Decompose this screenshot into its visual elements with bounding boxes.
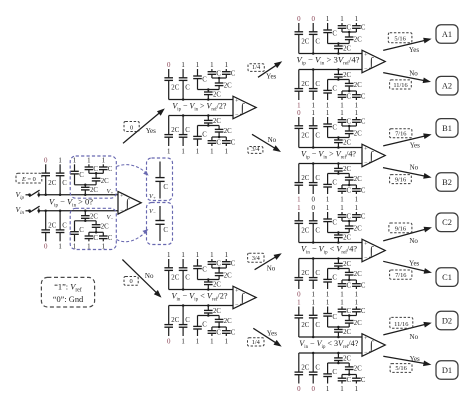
svg-text:1: 1: [196, 252, 200, 259]
capacitor 2C series to rail bot, stage-2 lower comparator block U3: [204, 304, 221, 315]
svg-text:2C: 2C: [343, 46, 351, 53]
capacitor 2C under pair top, stage-3 comparator block D (U7): [345, 316, 362, 328]
svg-text:C: C: [202, 322, 207, 329]
capacitor C bot main, stage-2 lower comparator block U3: [179, 304, 191, 336]
svg-text:Vip − Vin > Vref/2?: Vip − Vin > Vref/2?: [172, 102, 226, 113]
capacitor C pair-left top, stage-2 lower comparator block U3: [208, 259, 222, 268]
svg-text:C: C: [216, 71, 221, 78]
svg-text:∫: ∫: [369, 149, 374, 163]
svg-text:C: C: [231, 261, 236, 268]
svg-text:0: 0: [297, 16, 301, 23]
svg-text:1: 1: [340, 102, 344, 109]
dashed box around stage-1 upper inner capacitor network: [70, 156, 116, 198]
wire elbow bar top, stage-3 comparator block D (U7): [328, 326, 350, 329]
node labels stage-3 comparator block B (U5) bottom: [297, 196, 359, 203]
svg-text:1: 1: [326, 386, 330, 393]
capacitor C pair-right top, stage-3 comparator block C (U6): [352, 212, 366, 221]
capacitor C pair-right top, stage-2 upper comparator block U2: [222, 69, 236, 78]
wire elbow bar top, stage-2 upper comparator block U2: [198, 88, 220, 91]
capacitor C pair-left top, stage-3 comparator block A (U4): [338, 23, 352, 32]
capacitor 2C bot main, stage-3 comparator block A (U4): [295, 70, 310, 101]
svg-text:1: 1: [167, 252, 171, 259]
svg-text:1: 1: [210, 252, 214, 259]
svg-text:C: C: [361, 25, 366, 32]
wire top rail (+ input) of stage-3 comparator block B (U5): [299, 147, 362, 149]
svg-text:C: C: [163, 184, 168, 191]
svg-text:1: 1: [58, 157, 62, 164]
capacitor C top main, stage-3 comparator block C (U6): [309, 212, 321, 244]
svg-text:C: C: [202, 77, 207, 84]
wire pair junction bar top, stage-1 comparator block U1: [89, 172, 103, 175]
capacitor 2C series to rail bot, stage-3 comparator block C (U6): [334, 257, 351, 268]
svg-text:2C: 2C: [224, 83, 232, 90]
svg-text:C: C: [202, 132, 207, 139]
svg-text:No: No: [409, 237, 418, 245]
svg-text:0: 0: [167, 338, 171, 345]
capacitor C bot main, stage-1 comparator block U1: [56, 210, 68, 242]
svg-text:2C: 2C: [301, 228, 309, 235]
svg-text:2C: 2C: [224, 128, 232, 135]
dashed box energy 1/4 (stage-2 lower Yes): [248, 338, 265, 346]
wire top rail (+ input) of stage-3 comparator block C (U6): [299, 242, 362, 244]
capacitor C bot main, stage-3 comparator block C (U6): [309, 257, 321, 289]
wire bottom rail (&#8722; input) of stage-3 comparator block D (U7): [299, 352, 362, 354]
svg-text:1: 1: [355, 110, 359, 117]
svg-text:1: 1: [326, 16, 330, 23]
wire elbow bar bot, stage-3 comparator block B (U5): [328, 172, 350, 175]
svg-text:1: 1: [326, 102, 330, 109]
capacitor 2C series to rail bot, stage-3 comparator block D (U7): [334, 352, 351, 363]
svg-text:1: 1: [225, 148, 229, 155]
svg-text:1: 1: [73, 157, 77, 164]
svg-text:1: 1: [297, 196, 301, 203]
svg-text:C: C: [315, 228, 320, 235]
wire elbow bar bot, stage-2 lower comparator block U3: [198, 314, 220, 317]
svg-text:2C: 2C: [301, 270, 309, 277]
arrow D No to D2: [383, 323, 430, 335]
svg-text:3/4: 3/4: [251, 146, 260, 153]
svg-text:C: C: [315, 270, 320, 277]
arrow stage-2 upper Yes branch: [258, 62, 281, 77]
svg-text:1: 1: [340, 291, 344, 298]
capacitor C bot inner branch, stage-1 comparator block U1: [70, 221, 84, 242]
wire elbow bar top, stage-3 comparator block C (U6): [328, 231, 350, 234]
svg-text:C: C: [361, 283, 366, 290]
svg-text:2C: 2C: [343, 166, 351, 173]
svg-text:1: 1: [102, 157, 106, 164]
svg-text:C: C: [185, 127, 190, 134]
svg-text:2C: 2C: [213, 92, 221, 99]
svg-text:1: 1: [340, 16, 344, 23]
capacitor C equivalent (V+): [155, 162, 168, 199]
capacitor C pair-right bot, stage-3 comparator block D (U7): [352, 375, 366, 385]
svg-text:2C: 2C: [90, 213, 98, 220]
wire pair junction bar bot, stage-2 lower comparator block U3: [212, 326, 226, 329]
node labels stage-3 comparator block C (U6) bottom: [297, 291, 359, 298]
node labels stage-3 comparator block C (U6) top: [297, 205, 359, 212]
svg-text:∫: ∫: [240, 101, 245, 115]
capacitor C pair-right top, stage-3 comparator block D (U7): [352, 307, 366, 316]
capacitor 2C bot main, stage-2 upper comparator block U2: [164, 116, 179, 147]
svg-text:5/16: 5/16: [394, 36, 405, 43]
svg-text:1: 1: [340, 196, 344, 203]
svg-text:C: C: [315, 39, 320, 46]
svg-text:Yes: Yes: [146, 127, 156, 135]
arrow C No to C2: [383, 227, 430, 241]
capacitor 2C series to rail top, stage-2 upper comparator block U2: [204, 90, 221, 101]
svg-text:C: C: [163, 227, 168, 234]
svg-text:2C: 2C: [171, 127, 179, 134]
svg-text:1: 1: [340, 386, 344, 393]
dashed box energy 7/16 (C Yes): [390, 270, 412, 279]
svg-text:E = 0: E = 0: [21, 176, 36, 183]
wire pair junction bar top, stage-3 comparator block A (U4): [342, 31, 356, 34]
output code box A1: [436, 25, 458, 44]
svg-text:C: C: [332, 314, 337, 321]
comparator stage-3 comparator block B (U5): [362, 144, 385, 167]
wire elbow bar top, stage-2 lower comparator block U3: [198, 278, 220, 281]
svg-text:C: C: [332, 125, 337, 132]
svg-text:C: C: [79, 227, 84, 234]
dashed arrow big box to V+ equivalent: [117, 165, 147, 174]
capacitor 2C under pair bot, stage-3 comparator block A (U4): [345, 80, 362, 92]
svg-text:C: C: [361, 119, 366, 126]
dashed box energy 7/16 (B Yes): [390, 129, 412, 138]
arrow D Yes to D1: [383, 356, 429, 365]
svg-text:1: 1: [297, 102, 301, 109]
svg-text:2C: 2C: [301, 39, 309, 46]
svg-text:2C: 2C: [354, 366, 362, 373]
arrow B Yes to B1: [383, 134, 430, 146]
wire top rail (+ input) of stage-3 comparator block D (U7): [299, 336, 362, 338]
capacitor 2C under pair top, stage-2 lower comparator block U3: [215, 268, 232, 280]
capacitor 2C under pair top, stage-2 upper comparator block U2: [215, 78, 232, 90]
capacitor 2C bot main, stage-2 lower comparator block U3: [164, 306, 179, 337]
dashed box around stage-1 lower inner capacitor network: [70, 208, 116, 249]
switch S1p (sampling switch on Vip): [29, 190, 47, 197]
capacitor C pair-right bot, stage-3 comparator block C (U6): [352, 280, 366, 290]
svg-text:C: C: [315, 365, 320, 372]
svg-text:1: 1: [326, 196, 330, 203]
svg-text:2C: 2C: [101, 223, 109, 230]
capacitor 2C under pair bot, stage-3 comparator block D (U7): [345, 363, 362, 375]
wire pair junction bar bot, stage-1 comparator block U1: [89, 231, 103, 234]
wire elbow bar top, stage-3 comparator block A (U4): [328, 42, 350, 45]
capacitor 2C under pair bot, stage-2 upper comparator block U2: [215, 126, 232, 138]
svg-text:2C: 2C: [343, 329, 351, 336]
svg-text:2C: 2C: [213, 282, 221, 289]
svg-text:Vin − Vip < Vref/4?: Vin − Vip < Vref/4?: [301, 245, 357, 256]
arrow stage-1 No branch: [122, 260, 160, 297]
dashed box equivalent capacitor C on V-: [147, 203, 173, 245]
svg-text:C: C: [361, 188, 366, 195]
svg-text:1: 1: [340, 205, 344, 212]
svg-text:C: C: [361, 377, 366, 384]
wire bottom rail (&#8722; input) of stage-3 comparator block A (U4): [299, 69, 362, 71]
node labels stage-3 comparator block D (U7) top: [297, 300, 359, 307]
capacitor C pair-right top, stage-1 comparator block U1: [99, 164, 113, 173]
capacitor 2C top main, stage-3 comparator block B (U5): [295, 117, 310, 148]
svg-text:∫: ∫: [240, 291, 245, 305]
capacitor C top inner branch, stage-1 comparator block U1: [70, 164, 84, 185]
svg-text:2C: 2C: [354, 176, 362, 183]
svg-text:1: 1: [181, 252, 185, 259]
comparator stage-2 lower comparator block U3: [233, 286, 256, 309]
svg-text:1: 1: [58, 244, 62, 251]
svg-text:1: 1: [355, 205, 359, 212]
capacitor 2C series to rail bot, stage-3 comparator block B (U5): [334, 162, 351, 173]
output code box D1: [436, 361, 458, 380]
svg-text:11/16: 11/16: [394, 321, 408, 328]
svg-text:1: 1: [326, 205, 330, 212]
svg-text:0: 0: [130, 124, 133, 131]
wire elbow bar bot, stage-3 comparator block D (U7): [328, 362, 350, 365]
svg-text:2C: 2C: [354, 271, 362, 278]
svg-text:C: C: [93, 166, 98, 173]
wire elbow bar bot, stage-1 comparator block U1: [75, 220, 97, 223]
svg-text:2C: 2C: [343, 235, 351, 242]
wire pair junction bar top, stage-2 lower comparator block U3: [212, 267, 226, 270]
svg-text:No: No: [410, 333, 419, 341]
capacitor 2C top main, stage-3 comparator block C (U6): [295, 212, 310, 243]
svg-text:1: 1: [196, 338, 200, 345]
svg-text:Yes: Yes: [410, 355, 420, 363]
dashed box equivalent capacitor C on V+: [147, 158, 173, 201]
capacitor C pair-left bot, stage-3 comparator block C (U6): [338, 280, 352, 290]
wire pair junction bar bot, stage-3 comparator block D (U7): [342, 373, 356, 376]
svg-text:Vin − Vip < 3Vref/4?: Vin − Vip < 3Vref/4?: [299, 339, 358, 350]
node labels stage-3 comparator block A (U4) top: [297, 16, 359, 23]
capacitor 2C under pair top, stage-1 comparator block U1: [92, 173, 109, 185]
capacitor C pair-left top, stage-1 comparator block U1: [85, 164, 99, 173]
capacitor C bot inner branch, stage-3 comparator block D (U7): [323, 363, 337, 384]
svg-text:9/16: 9/16: [395, 176, 406, 183]
svg-text:11/16: 11/16: [393, 82, 407, 89]
comparator stage-3 comparator block D (U7): [362, 334, 385, 357]
capacitor 2C under pair top, stage-3 comparator block A (U4): [345, 32, 362, 44]
svg-text:B2: B2: [442, 178, 452, 187]
dashed box energy 3/4 (stage-2 lower No): [248, 253, 264, 262]
comparator stage-1 comparator block U1: [118, 192, 141, 215]
capacitor 2C series to rail bot, stage-1 comparator block U1: [81, 210, 98, 221]
svg-text:0: 0: [297, 110, 301, 117]
svg-text:C: C: [361, 94, 366, 101]
capacitor C pair-left bot, stage-2 upper comparator block U2: [208, 137, 222, 147]
svg-text:2C: 2C: [301, 322, 309, 329]
capacitor C top inner branch, stage-3 comparator block D (U7): [323, 307, 337, 328]
output code box C1: [436, 268, 458, 287]
svg-text:2C: 2C: [343, 140, 351, 147]
svg-text:1: 1: [181, 148, 185, 155]
svg-text:1: 1: [311, 110, 315, 117]
capacitor 2C series to rail top, stage-3 comparator block C (U6): [334, 233, 351, 244]
wire top rail (+ input) of stage-1 comparator block U1: [46, 194, 118, 196]
svg-text:2C: 2C: [301, 133, 309, 140]
dashed box switching energy 0 (stage-1 Yes): [124, 122, 139, 132]
arrow C Yes to C1: [383, 261, 430, 273]
svg-text:C: C: [62, 180, 67, 187]
dashed box energy 9/16 (C No): [389, 223, 412, 233]
svg-text:Vin − Vip < Vref/2?: Vin − Vip < Vref/2?: [172, 292, 228, 303]
svg-text:C: C: [315, 322, 320, 329]
svg-text:2C: 2C: [48, 180, 56, 187]
svg-text:1: 1: [181, 338, 185, 345]
capacitor 2C top main, stage-3 comparator block A (U4): [295, 23, 310, 54]
svg-text:0: 0: [129, 278, 132, 285]
switch S1n (sampling switch on Vin): [29, 206, 47, 213]
arrow stage-2 upper No branch: [252, 134, 279, 151]
capacitor C bot main, stage-3 comparator block B (U5): [309, 162, 321, 194]
dashed box energy 5/16 (D Yes): [390, 364, 412, 373]
wire elbow bar top, stage-3 comparator block B (U5): [328, 136, 350, 139]
arrow stage-2 lower No branch: [255, 254, 281, 270]
capacitor C top inner branch, stage-3 comparator block B (U5): [323, 117, 337, 138]
node labels stage-3 comparator block D (U7) bottom: [297, 386, 359, 393]
capacitor C pair-left top, stage-3 comparator block B (U5): [338, 117, 352, 126]
svg-text:2C: 2C: [354, 226, 362, 233]
svg-text:C: C: [332, 31, 337, 38]
wire pair junction bar top, stage-2 upper comparator block U2: [212, 77, 226, 80]
svg-text:C: C: [347, 308, 352, 315]
capacitor C pair-right top, stage-3 comparator block B (U5): [352, 117, 366, 126]
wire pair junction bar top, stage-3 comparator block C (U6): [342, 220, 356, 223]
svg-text:1: 1: [196, 148, 200, 155]
capacitor C pair-left bot, stage-3 comparator block D (U7): [338, 375, 352, 385]
svg-text:C: C: [347, 214, 352, 221]
wire top rail (+ input) of stage-3 comparator block A (U4): [299, 53, 362, 55]
arrow stage-2 lower Yes branch: [253, 328, 280, 345]
arrow A Yes to A1: [383, 39, 430, 51]
svg-text:C2: C2: [442, 218, 452, 227]
capacitor 2C bot main, stage-3 comparator block B (U5): [295, 164, 310, 195]
svg-text:2C: 2C: [301, 365, 309, 372]
node labels stage-1 comparator block U1 top: [44, 157, 106, 164]
svg-text:2C: 2C: [354, 82, 362, 89]
svg-text:Yes: Yes: [409, 46, 419, 54]
capacitor 2C top main, stage-3 comparator block D (U7): [295, 307, 310, 338]
svg-text:C: C: [216, 330, 221, 337]
svg-text:1: 1: [311, 291, 315, 298]
svg-text:C: C: [202, 267, 207, 274]
capacitor C top inner branch, stage-3 comparator block A (U4): [323, 23, 337, 44]
svg-text:Yes: Yes: [267, 329, 277, 337]
dashed box energy 3/4 (stage-2 upper No): [248, 146, 263, 153]
capacitor 2C under pair top, stage-3 comparator block B (U5): [345, 126, 362, 138]
capacitor C pair-left top, stage-2 upper comparator block U2: [208, 69, 222, 78]
svg-text:Yes: Yes: [410, 141, 420, 149]
output code box A2: [436, 76, 458, 95]
capacitor C pair-left top, stage-3 comparator block C (U6): [338, 212, 352, 221]
svg-text:No: No: [410, 164, 419, 172]
svg-text:0: 0: [311, 386, 315, 393]
capacitor C pair-right bot, stage-3 comparator block A (U4): [352, 91, 366, 101]
node labels stage-1 comparator block U1 bottom: [44, 244, 106, 251]
svg-text:1: 1: [225, 62, 229, 69]
svg-text:0: 0: [297, 386, 301, 393]
svg-text:No: No: [267, 264, 276, 272]
capacitor 2C top main, stage-2 lower comparator block U3: [164, 259, 179, 290]
svg-text:A2: A2: [442, 82, 452, 91]
svg-text:C: C: [347, 119, 352, 126]
svg-text:1: 1: [196, 62, 200, 69]
svg-text:1: 1: [167, 148, 171, 155]
svg-text:C: C: [231, 330, 236, 337]
capacitor C top main, stage-2 lower comparator block U3: [179, 259, 191, 291]
svg-text:C: C: [93, 235, 98, 242]
svg-text:1: 1: [355, 196, 359, 203]
wire pair junction bar bot, stage-3 comparator block B (U5): [342, 184, 356, 187]
svg-text:C: C: [185, 85, 190, 92]
capacitor C equivalent (V-): [155, 206, 168, 241]
svg-text:2C: 2C: [101, 178, 109, 185]
dashed box E = 0: [16, 173, 42, 183]
svg-text:0: 0: [297, 291, 301, 298]
node labels stage-3 comparator block B (U5) top: [297, 110, 359, 117]
svg-text:2C: 2C: [90, 187, 98, 194]
svg-text:2C: 2C: [354, 131, 362, 138]
svg-text:1: 1: [181, 62, 185, 69]
wire elbow bar bot, stage-3 comparator block C (U6): [328, 267, 350, 270]
capacitor C bot main, stage-2 upper comparator block U2: [179, 114, 191, 146]
svg-text:C: C: [361, 308, 366, 315]
wire Vin input: [26, 209, 31, 212]
capacitor C top inner branch, stage-3 comparator block C (U6): [323, 212, 337, 233]
svg-text:2C: 2C: [213, 118, 221, 125]
dashed box energy 5/16 (A Yes): [388, 33, 412, 43]
svg-text:D1: D1: [442, 366, 452, 375]
svg-text:C: C: [185, 275, 190, 282]
output code box B1: [436, 119, 458, 138]
svg-text:C: C: [185, 317, 190, 324]
capacitor C pair-left bot, stage-3 comparator block B (U5): [338, 185, 352, 195]
svg-text:3/4: 3/4: [252, 255, 261, 262]
svg-text:∫: ∫: [125, 196, 130, 210]
svg-text:C: C: [347, 377, 352, 384]
svg-text:2C: 2C: [354, 37, 362, 44]
svg-text:Vip − Vin > Vref/4?: Vip − Vin > Vref/4?: [301, 150, 356, 161]
capacitor C pair-left top, stage-3 comparator block D (U7): [338, 307, 352, 316]
svg-text:Yes: Yes: [409, 259, 419, 267]
capacitor C pair-right top, stage-3 comparator block A (U4): [352, 23, 366, 32]
wire bottom rail (&#8722; input) of stage-2 upper comparator block U2: [169, 115, 233, 117]
svg-text:D2: D2: [442, 316, 452, 325]
capacitor 2C bot main, stage-3 comparator block C (U6): [295, 259, 310, 290]
svg-text:C: C: [231, 140, 236, 147]
svg-text:1: 1: [326, 110, 330, 117]
dashed box energy 9/16 (B No): [390, 175, 412, 184]
output code box B2: [436, 173, 458, 192]
svg-text:1: 1: [210, 62, 214, 69]
svg-text:No: No: [268, 136, 277, 144]
capacitor 2C series to rail top, stage-2 lower comparator block U3: [204, 280, 221, 291]
svg-text:No: No: [409, 70, 418, 78]
wire pair junction bar top, stage-3 comparator block D (U7): [342, 314, 356, 317]
wire elbow bar bot, stage-3 comparator block A (U4): [328, 78, 350, 81]
svg-text:C: C: [315, 175, 320, 182]
svg-text:C: C: [347, 94, 352, 101]
svg-text:2C: 2C: [224, 318, 232, 325]
svg-text:1: 1: [87, 157, 91, 164]
capacitor C pair-left bot, stage-1 comparator block U1: [85, 232, 99, 242]
svg-text:C: C: [62, 222, 67, 229]
arrow stage-1 Yes branch: [123, 110, 164, 144]
wire bottom rail (&#8722; input) of stage-3 comparator block C (U6): [299, 258, 362, 260]
svg-text:0: 0: [311, 205, 315, 212]
wire elbow bar bot, stage-2 upper comparator block U2: [198, 124, 220, 127]
svg-text:2C: 2C: [354, 320, 362, 327]
node labels stage-2 lower comparator block U3 bottom: [167, 338, 229, 345]
capacitor 2C series to rail top, stage-3 comparator block A (U4): [334, 44, 351, 55]
